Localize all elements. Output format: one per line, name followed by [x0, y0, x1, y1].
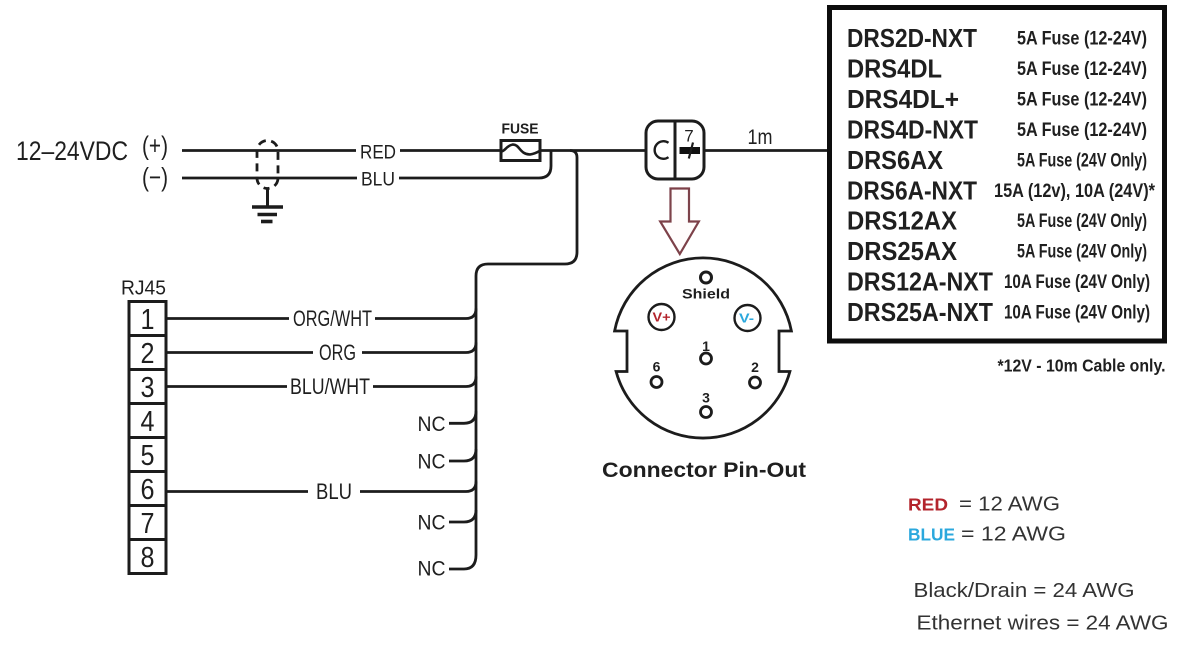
svg-text:12–24VDC: 12–24VDC [16, 136, 128, 166]
svg-text:3: 3 [702, 390, 710, 406]
svg-text:15A (12v), 10A (24V)*: 15A (12v), 10A (24V)* [994, 181, 1156, 202]
svg-text:7: 7 [141, 508, 155, 540]
RJ45 pin 5 [129, 438, 166, 472]
pin V- [735, 305, 761, 331]
svg-text:1: 1 [141, 304, 155, 336]
svg-text:RJ45: RJ45 [121, 278, 166, 300]
svg-text:7: 7 [684, 127, 693, 146]
RJ45 pin 2 [129, 336, 166, 370]
table row DRS4DL+ [847, 84, 1147, 114]
svg-text:4: 4 [141, 406, 155, 438]
table row DRS4DL [847, 54, 1147, 84]
pin 3 [701, 390, 712, 418]
svg-text:BLUE: BLUE [908, 524, 955, 544]
svg-text:DRS6A-NXT: DRS6A-NXT [847, 175, 977, 205]
svg-text:6: 6 [653, 359, 661, 375]
wire cable 1m from connector to table [704, 149, 827, 152]
connector J1 (7-pin inline) [646, 121, 704, 179]
svg-text:1m: 1m [748, 125, 773, 149]
svg-text:10A Fuse (24V Only): 10A Fuse (24V Only) [1004, 303, 1150, 324]
svg-text:RED: RED [908, 495, 948, 515]
svg-text:RED: RED [360, 142, 396, 164]
svg-text:NC: NC [418, 558, 446, 581]
wire positive from (+) to fuse [182, 149, 501, 152]
svg-text:V+: V+ [653, 311, 671, 325]
connector pin-out body circle with key notches [615, 258, 792, 438]
label BLU on negative wire [357, 169, 399, 191]
label BLU/WHT [287, 374, 373, 399]
RJ45 pin 1 [129, 302, 166, 336]
label ORG/WHT [289, 306, 375, 331]
svg-text:BLU: BLU [361, 169, 395, 191]
svg-text:BLU/WHT: BLU/WHT [290, 374, 370, 399]
red arrow pointing to pin-out [660, 189, 699, 255]
svg-text:5A Fuse (12-24V): 5A Fuse (12-24V) [1017, 89, 1147, 110]
RJ45 pin 8 [129, 540, 166, 574]
wire branch down to RJ45 trunk [449, 151, 577, 570]
svg-text:DRS25A-NXT: DRS25A-NXT [847, 297, 993, 327]
svg-text:DRS4DL: DRS4DL [847, 54, 942, 84]
table row DRS12AX [847, 206, 1147, 236]
svg-text:*12V - 10m Cable only.: *12V - 10m Cable only. [998, 356, 1166, 376]
svg-text:Shield: Shield [682, 287, 730, 302]
svg-text:6: 6 [141, 474, 155, 506]
fuse F1 [501, 122, 540, 161]
svg-text:DRS12A-NXT: DRS12A-NXT [847, 267, 993, 297]
svg-text:5A Fuse (12-24V): 5A Fuse (12-24V) [1017, 29, 1147, 50]
pin V+ [649, 304, 675, 330]
svg-text:= 12 AWG: = 12 AWG [961, 522, 1066, 545]
svg-text:5: 5 [141, 440, 155, 472]
svg-text:V-: V- [739, 312, 754, 326]
table row DRS6A-NXT [847, 175, 1156, 205]
svg-text:ORG/WHT: ORG/WHT [293, 306, 372, 331]
NC stub pin5 [449, 449, 476, 461]
table row DRS4D-NXT [847, 114, 1147, 144]
RJ45 pin 3 [129, 370, 166, 404]
svg-text:5A Fuse (12-24V): 5A Fuse (12-24V) [1017, 120, 1147, 141]
radar model fuse table box [830, 8, 1165, 342]
svg-text:8: 8 [141, 542, 155, 574]
svg-text:DRS25AX: DRS25AX [847, 236, 958, 266]
NC stub pin7 [449, 510, 476, 522]
svg-text:1: 1 [702, 338, 710, 354]
svg-text:10A Fuse (24V Only): 10A Fuse (24V Only) [1004, 272, 1150, 293]
ground [252, 207, 283, 222]
wire pin1 to trunk [166, 309, 476, 319]
svg-text:(+): (+) [142, 131, 168, 161]
svg-text:NC: NC [418, 413, 446, 436]
svg-text:5A Fuse (24V Only): 5A Fuse (24V Only) [1017, 211, 1147, 232]
cable shield symbol (dashed stadium) [257, 141, 278, 189]
svg-text:Black/Drain = 24 AWG: Black/Drain = 24 AWG [914, 579, 1135, 602]
svg-text:NC: NC [418, 512, 446, 535]
svg-text:FUSE: FUSE [502, 122, 539, 138]
svg-text:3: 3 [141, 372, 155, 404]
RJ45 pin 7 [129, 506, 166, 540]
svg-text:DRS4DL+: DRS4DL+ [847, 84, 959, 114]
wire negative from (-) joining cable after fuse [182, 151, 551, 179]
NC stub pin4 [449, 411, 476, 423]
table row DRS25A-NXT [847, 297, 1150, 327]
RJ45 pin 6 [129, 472, 166, 506]
label ORG [313, 340, 362, 365]
pin 1 [701, 338, 712, 364]
table row DRS2D-NXT [847, 23, 1147, 53]
label BLU pin6 [308, 479, 360, 504]
svg-text:2: 2 [751, 359, 759, 375]
svg-text:5A Fuse (12-24V): 5A Fuse (12-24V) [1017, 59, 1147, 80]
svg-text:2: 2 [141, 338, 155, 370]
svg-text:DRS2D-NXT: DRS2D-NXT [847, 23, 977, 53]
table row DRS12A-NXT [847, 267, 1150, 297]
shield stem wire [266, 189, 269, 208]
svg-text:DRS6AX: DRS6AX [847, 145, 944, 175]
wire cable from fuse to connector [540, 149, 648, 152]
svg-text:BLU: BLU [316, 479, 352, 504]
svg-text:5A Fuse (24V Only): 5A Fuse (24V Only) [1017, 150, 1147, 171]
RJ45 pin 4 [129, 404, 166, 438]
svg-text:DRS12AX: DRS12AX [847, 206, 958, 236]
svg-text:NC: NC [418, 451, 446, 474]
pin shield [701, 272, 712, 283]
pin 2 [750, 359, 761, 388]
legend RED gauge [908, 493, 1060, 516]
legend BLUE gauge [908, 522, 1066, 545]
wire pin6 to trunk [166, 482, 476, 492]
table row DRS25AX [847, 236, 1147, 266]
svg-text:(−): (−) [142, 162, 168, 192]
wire pin2 to trunk [166, 343, 476, 353]
label RED on positive wire [356, 142, 400, 164]
svg-text:= 12 AWG: = 12 AWG [959, 493, 1060, 516]
wire pin3 to trunk [166, 377, 476, 387]
svg-text:ORG: ORG [319, 340, 356, 365]
svg-text:Connector Pin-Out: Connector Pin-Out [602, 458, 806, 482]
svg-text:Ethernet wires = 24 AWG: Ethernet wires = 24 AWG [917, 612, 1169, 635]
svg-text:DRS4D-NXT: DRS4D-NXT [847, 114, 978, 144]
pin 6 [651, 359, 662, 388]
svg-text:5A Fuse (24V Only): 5A Fuse (24V Only) [1017, 242, 1147, 263]
table row DRS6AX [847, 145, 1147, 175]
